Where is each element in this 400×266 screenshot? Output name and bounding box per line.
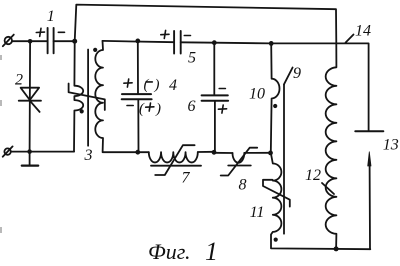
svg-text:1: 1 xyxy=(205,237,218,266)
svg-text:3: 3 xyxy=(84,147,93,164)
svg-text:10: 10 xyxy=(249,86,265,103)
svg-text:2: 2 xyxy=(15,72,23,89)
svg-text:7: 7 xyxy=(182,170,191,187)
svg-text:11: 11 xyxy=(250,204,265,221)
svg-text:Фиг.: Фиг. xyxy=(148,239,191,264)
svg-text:1: 1 xyxy=(47,8,55,25)
svg-text:): ) xyxy=(155,101,161,117)
svg-text:14: 14 xyxy=(355,22,371,39)
svg-text:(: ( xyxy=(144,77,150,93)
svg-text:4: 4 xyxy=(169,77,177,94)
svg-text:6: 6 xyxy=(188,98,196,115)
svg-text:5: 5 xyxy=(188,50,196,67)
svg-text:12: 12 xyxy=(305,167,321,184)
svg-text:): ) xyxy=(154,77,160,93)
svg-text:(: ( xyxy=(139,101,145,117)
svg-text:13: 13 xyxy=(383,137,399,154)
svg-text:8: 8 xyxy=(239,177,247,194)
svg-text:9: 9 xyxy=(293,65,301,82)
